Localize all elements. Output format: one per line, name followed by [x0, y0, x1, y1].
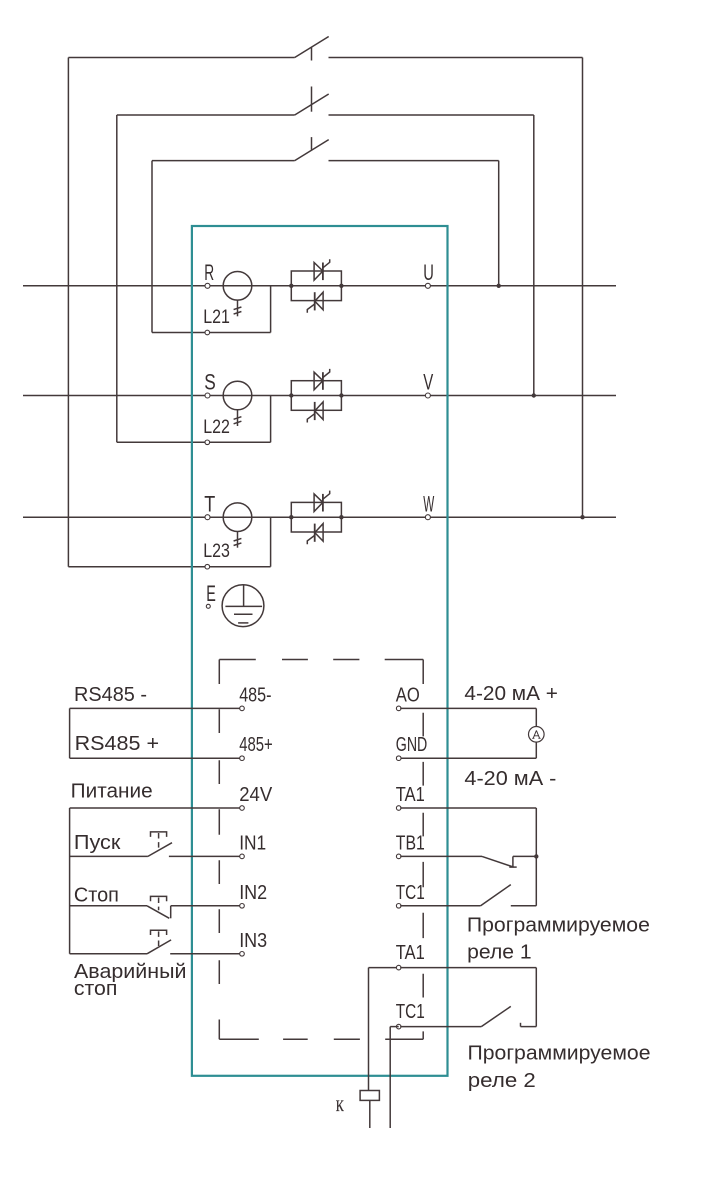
wire relay1 NC link — [513, 855, 536, 857]
svg-text:TB1: TB1 — [396, 831, 425, 854]
svg-text:485+: 485+ — [239, 733, 273, 756]
breaker contact K3 blade — [295, 140, 329, 161]
current transformer L23 mark1 — [234, 538, 242, 541]
node relay1 common junction — [534, 854, 538, 858]
thyristor Tb cathode bar — [314, 524, 316, 542]
node thyristor T left — [289, 515, 293, 519]
thyristor module S rect — [291, 381, 341, 411]
thyristor Rb triangle — [315, 292, 323, 310]
thyristor module T rect — [291, 502, 341, 532]
current transformer L23 circle — [223, 503, 252, 532]
protective earth circle — [222, 585, 264, 627]
wire TC1 out — [400, 905, 480, 907]
current transformer L21 mark1 — [234, 307, 242, 310]
node thyristor S right — [339, 393, 343, 397]
svg-text:IN3: IN3 — [239, 929, 267, 952]
svg-text:TA1: TA1 — [396, 783, 425, 806]
wire RS485+ to 485+ — [70, 757, 242, 759]
wire Питание to 24V — [70, 807, 242, 809]
thyristor Ra gate — [323, 259, 330, 268]
terminal TA1 relay2 — [396, 965, 401, 970]
current transformer L22 stub — [237, 410, 239, 426]
wire Пуск right to IN1 — [169, 855, 242, 857]
terminal IN2 — [240, 904, 245, 909]
wire relay1 NO anvil — [511, 905, 537, 907]
svg-text:4-20 мА +: 4-20 мА + — [464, 682, 558, 705]
wire breaker K1 to output bus — [329, 57, 583, 59]
wire Аварийный left — [70, 953, 147, 955]
control terminals dashed border right — [422, 660, 424, 1040]
pushbutton SB1 cap — [151, 832, 167, 837]
wire TA1 relay2 drop to coil — [368, 968, 370, 1091]
protective earth stem — [243, 585, 245, 606]
node junction on output bus (x=582.5) — [580, 515, 584, 519]
svg-text:GND: GND — [396, 733, 428, 756]
wire T phase bus — [23, 516, 616, 518]
breaker contact K2 actuator tick — [311, 87, 313, 112]
wire TC1 relay2 drop — [389, 1027, 391, 1128]
relay2 NO anvil tick — [520, 1023, 522, 1027]
wire Аварийный right to IN3 — [170, 953, 242, 955]
wire bypass vertical 3 — [151, 161, 153, 333]
wire ammeter bottom — [535, 742, 537, 758]
wire bypass bottom row 2 — [117, 441, 271, 443]
pushbutton SB2 post — [170, 906, 172, 919]
wire breaker K1 left feed — [68, 57, 294, 59]
current transformer L21 stub — [237, 300, 239, 316]
wire bypass bottom row 3 — [152, 332, 271, 334]
svg-text:Программируемое: Программируемое — [468, 1042, 651, 1065]
current transformer L21 circle — [223, 272, 252, 301]
soft starter enclosure box — [192, 226, 448, 1076]
wire TA1 out — [400, 807, 536, 809]
relay1 NC tick — [509, 866, 516, 868]
wire bypass bottom row 1 — [68, 566, 270, 568]
svg-text:TC1: TC1 — [396, 1000, 425, 1023]
thyristor Rb gate — [307, 304, 314, 313]
terminal R — [205, 283, 210, 288]
terminal 485- — [240, 706, 245, 711]
thyristor Sb gate — [307, 414, 314, 423]
control terminals dashed border left — [218, 660, 220, 1040]
wire breaker K2 to output bus — [329, 114, 534, 116]
svg-text:стоп: стоп — [74, 977, 118, 1000]
node thyristor R left — [289, 284, 293, 288]
current transformer L21 mark2 — [234, 312, 242, 315]
svg-text:Программируемое: Программируемое — [467, 914, 650, 937]
svg-text:24V: 24V — [239, 783, 272, 806]
terminal S — [205, 393, 210, 398]
pushbutton SB3 stem — [158, 931, 160, 946]
svg-text:RS485 +: RS485 + — [75, 732, 160, 755]
svg-text:К: К — [336, 1098, 344, 1115]
wire vertical drop from K3 — [498, 161, 500, 286]
svg-text:IN1: IN1 — [239, 831, 266, 854]
wire breaker K3 left feed — [152, 160, 295, 162]
wire R phase bus — [23, 285, 616, 287]
wire ammeter top — [535, 708, 537, 726]
svg-text:E: E — [206, 581, 216, 606]
svg-text:Пуск: Пуск — [74, 831, 122, 854]
terminal L22 — [205, 440, 210, 445]
current transformer L22 circle — [223, 381, 252, 410]
wire TA1 relay2 out — [400, 967, 536, 969]
terminal IN1 — [240, 854, 245, 859]
svg-text:RS485 -: RS485 - — [74, 683, 147, 706]
thyristor module R rect — [291, 271, 341, 301]
breaker contact K2 blade — [295, 94, 329, 115]
svg-text:L22: L22 — [203, 416, 230, 438]
protective earth bar3 — [238, 622, 248, 624]
terminal TC1 relay2 — [396, 1024, 401, 1029]
svg-text:W: W — [423, 491, 434, 516]
svg-text:TA1: TA1 — [396, 941, 425, 964]
svg-text:4-20 мА -: 4-20 мА - — [464, 767, 556, 790]
current transformer L23 stub — [237, 532, 239, 548]
svg-text:Питание: Питание — [71, 780, 153, 803]
wire RS485 pair left side — [69, 708, 71, 758]
terminal TA1 — [396, 806, 401, 811]
wire bypass vertical 2 — [116, 115, 118, 442]
svg-text:реле 1: реле 1 — [467, 940, 532, 963]
wire relay1 common drop — [535, 808, 537, 906]
pushbutton SB3 cap — [151, 930, 167, 935]
wire AO out — [400, 707, 536, 709]
svg-text:AO: AO — [396, 683, 420, 706]
protective earth bar1 — [225, 605, 262, 607]
wire Стоп right to IN2 — [171, 905, 242, 907]
svg-text:V: V — [423, 370, 433, 395]
terminal GND — [396, 756, 401, 761]
thyristor Sa triangle — [314, 372, 323, 390]
thyristor Ta gate — [323, 491, 330, 500]
breaker contact K1 blade — [295, 37, 329, 58]
node junction on output bus (x=533.8) — [532, 393, 536, 397]
thyristor Rb cathode bar — [314, 292, 316, 310]
breaker contact K3 actuator tick — [311, 137, 313, 150]
current transformer L22 mark1 — [234, 417, 242, 420]
terminal 485+ — [240, 756, 245, 761]
thyristor Sa gate — [323, 369, 330, 378]
protective earth bar2 — [234, 613, 253, 615]
svg-text:L21: L21 — [203, 306, 230, 328]
wire TA1 relay2 left — [369, 967, 399, 969]
relay1 NC blade — [482, 856, 514, 867]
pushbutton SB2 blade — [147, 906, 169, 919]
control terminals dashed border top — [219, 659, 423, 661]
svg-text:R: R — [204, 260, 214, 285]
svg-text:S: S — [204, 370, 216, 395]
wire RS485- to 485- — [70, 707, 242, 709]
wire GND return — [400, 757, 536, 759]
wire bypass riser 1 — [270, 517, 272, 567]
thyristor Sa cathode bar — [322, 372, 324, 390]
terminal T — [205, 515, 210, 520]
wire relay2 common drop — [535, 968, 537, 1027]
pushbutton SB3 blade — [147, 940, 171, 954]
terminal U — [425, 283, 430, 288]
breaker contact K1 actuator tick — [311, 48, 313, 61]
wire relay2 NO anvil — [521, 1026, 537, 1028]
control terminals dashed border bottom — [219, 1038, 423, 1040]
node junction on output bus (x=498.7) — [497, 284, 501, 288]
wire bypass riser 2 — [270, 396, 272, 443]
svg-text:L23: L23 — [203, 540, 230, 562]
node thyristor S left — [289, 393, 293, 397]
pushbutton SB2 stem — [158, 898, 160, 911]
current transformer L22 mark2 — [234, 421, 242, 424]
svg-text:реле 2: реле 2 — [468, 1069, 536, 1092]
relay2 NO blade — [481, 1006, 511, 1026]
terminal TB1 — [396, 854, 401, 859]
thyristor Ra triangle — [314, 263, 323, 281]
thyristor Ta cathode bar — [322, 494, 324, 512]
current transformer L23 mark2 — [234, 543, 242, 546]
thyristor Ta triangle — [314, 494, 323, 512]
wire S phase bus — [23, 395, 616, 397]
wire TC1 relay2 stub — [390, 1026, 399, 1028]
wire supply vertical — [69, 808, 71, 954]
terminal W — [425, 515, 430, 520]
wire vertical drop from K1 — [582, 58, 584, 518]
thyristor Tb triangle — [315, 524, 323, 542]
wire breaker K2 left feed — [117, 114, 295, 116]
svg-text:485-: 485- — [239, 683, 271, 706]
pushbutton SB1 stem — [158, 833, 160, 849]
relay1 NC post — [512, 856, 514, 867]
svg-text:TC1: TC1 — [396, 881, 425, 904]
terminal L21 — [205, 330, 210, 335]
pushbutton SB1 blade — [148, 843, 172, 857]
thyristor Ra cathode bar — [322, 263, 324, 281]
terminal TC1 — [396, 904, 401, 909]
contactor coil K rect — [360, 1091, 379, 1101]
wire coil bottom lead — [369, 1100, 371, 1128]
wire TC1 relay2 out — [400, 1026, 481, 1028]
terminal 24V — [240, 806, 245, 811]
wire TB1 out — [400, 855, 482, 857]
wire bypass riser 3 — [270, 286, 272, 333]
terminal AO — [396, 706, 401, 711]
svg-text:IN2: IN2 — [239, 881, 267, 904]
svg-text:U: U — [423, 260, 434, 285]
thyristor Tb gate — [307, 535, 314, 544]
node thyristor T right — [339, 515, 343, 519]
ammeter M1 circle — [529, 727, 545, 743]
pushbutton SB2 cap — [151, 896, 167, 901]
node thyristor R right — [339, 284, 343, 288]
relay1 NO blade — [481, 885, 511, 906]
thyristor Sb triangle — [315, 402, 323, 420]
ammeter M1 letter — [532, 730, 540, 738]
wire breaker K3 to output bus — [329, 160, 499, 162]
terminal IN3 — [240, 952, 245, 957]
wire bypass vertical 1 — [67, 58, 69, 567]
wire Пуск left — [70, 855, 148, 857]
thyristor Sb cathode bar — [314, 402, 316, 420]
wire vertical drop from K2 — [533, 115, 535, 396]
svg-text:Стоп: Стоп — [74, 884, 119, 907]
terminal V — [425, 393, 430, 398]
wire Стоп left — [70, 905, 147, 907]
svg-text:T: T — [204, 491, 215, 516]
terminal L23 — [205, 564, 210, 569]
terminal E — [206, 604, 210, 608]
